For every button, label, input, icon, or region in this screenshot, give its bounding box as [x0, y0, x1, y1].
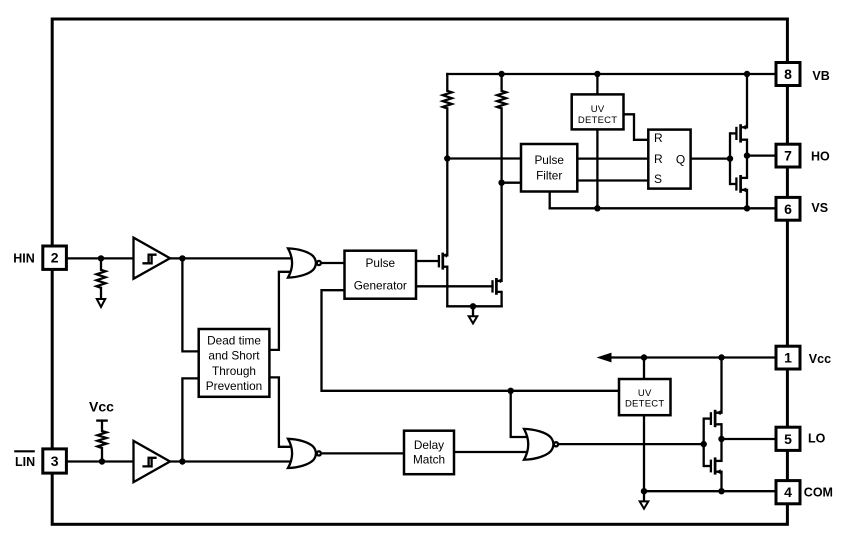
svg-text:Dead time: Dead time	[207, 334, 261, 348]
junction HO drain node	[744, 152, 750, 158]
wire LO driver drain bus mid	[720, 424, 722, 461]
svg-text:UV: UV	[591, 104, 605, 115]
resistor R2 level shift	[497, 91, 506, 109]
junction buffer B output node	[179, 458, 185, 464]
svg-text:DETECT: DETECT	[625, 399, 665, 410]
wire pulse generator to M1 gate	[416, 260, 439, 262]
svg-text:Vcc: Vcc	[809, 352, 831, 366]
svg-text:Q: Q	[676, 152, 685, 166]
svg-text:5: 5	[784, 431, 792, 447]
svg-text:Delay: Delay	[414, 438, 444, 452]
pin 5 LO	[776, 427, 800, 450]
transistor Q3 LO driver PMOS	[704, 410, 722, 427]
wire buffer A output down to dead time block	[182, 258, 198, 351]
wire M2 source to ground rail	[500, 292, 502, 306]
wire upper NOR output to pulse generator	[321, 262, 345, 264]
junction LO drain node	[718, 436, 724, 442]
wire pulse filter to latch R	[577, 157, 648, 159]
svg-text:and Short: and Short	[208, 349, 260, 363]
wire HO driver drain bus upper	[746, 74, 748, 127]
wire LO driver drain bus lower	[720, 472, 722, 492]
block dead time and short through prevention	[199, 329, 270, 397]
junction level shifter ground node	[470, 303, 476, 309]
wire level shifter source rail	[447, 305, 501, 307]
svg-text:HO: HO	[811, 149, 830, 163]
wire latch Q output to HO driver gates	[691, 157, 730, 159]
svg-text:R: R	[654, 131, 663, 145]
junction UV detect on VS rail	[594, 205, 600, 211]
wire output NOR to LO driver gates	[558, 443, 703, 445]
wire R1 node to pulse filter input 1	[447, 157, 521, 159]
svg-text:VS: VS	[811, 201, 828, 215]
wire LO driver output to LO pin	[722, 438, 777, 440]
arrow Vcc internal supply	[597, 353, 612, 363]
wire HIN pull-down resistor lead	[100, 258, 102, 269]
wire delay match to output NOR	[454, 451, 528, 453]
block pulse generator	[345, 251, 417, 299]
svg-text:LO: LO	[808, 431, 826, 445]
svg-text:1: 1	[784, 350, 792, 366]
pin 2 HIN	[43, 246, 67, 269]
block delay match	[404, 431, 454, 475]
wire upper UV detect output to latch R input	[624, 114, 649, 140]
junction NOR output on LO gate bus	[701, 441, 707, 447]
wire HO driver gate bus	[729, 133, 731, 184]
svg-text:HIN: HIN	[13, 252, 35, 266]
svg-text:Pulse: Pulse	[534, 153, 564, 167]
pin 7 HO	[776, 144, 800, 167]
svg-text:7: 7	[784, 148, 792, 164]
wire R1 to M1 drain	[446, 108, 448, 255]
wire VB rail	[447, 73, 776, 75]
wire HO driver drain bus lower	[746, 190, 748, 208]
block upper UV detect	[572, 94, 624, 129]
wire LIN resistor to input wire	[101, 448, 103, 462]
ground symbol below level shifters	[469, 316, 478, 323]
svg-text:Generator: Generator	[354, 278, 407, 292]
pin 6 VS	[776, 197, 800, 220]
svg-text:Prevention: Prevention	[206, 379, 262, 393]
junction feedback branch node	[508, 388, 514, 394]
schmitt buffer A (HIN)	[134, 238, 171, 279]
svg-text:S: S	[654, 172, 662, 186]
svg-text:Pulse: Pulse	[366, 256, 396, 270]
NOR gate U1 (high side)	[288, 248, 316, 277]
wire R2 node to pulse filter input 2	[502, 182, 521, 184]
wire below HIN resistor	[100, 288, 102, 299]
ground symbol on COM rail	[640, 501, 649, 508]
wire upper UV detect down to VS rail	[596, 129, 598, 208]
resistor R-HIN pull-down	[97, 270, 106, 288]
Vcc supply bar above LIN pull-up resistor	[96, 419, 108, 421]
transistor M2 level shift	[493, 278, 502, 295]
wire VB rail to resistor R2	[500, 74, 502, 91]
wire lower NOR output to delay match	[321, 452, 404, 454]
transistor Q1 HO driver PMOS	[730, 124, 747, 142]
wire pulse generator feedback to lower UV detect	[322, 290, 620, 391]
wire VB rail to upper UV detect	[596, 74, 598, 94]
wire R2 to M2 drain	[500, 108, 502, 281]
svg-text:DETECT: DETECT	[578, 115, 618, 126]
pin 1 Vcc	[776, 346, 800, 369]
junction LO driver on Vcc rail	[718, 354, 724, 360]
svg-text:4: 4	[784, 484, 792, 500]
pin 8 VB	[776, 63, 800, 86]
transistor Q2 HO driver NMOS	[730, 175, 747, 193]
wire HO driver drain bus mid	[746, 140, 748, 178]
ground arrow below HIN resistor	[97, 299, 105, 307]
wire HO driver output to HO pin	[747, 154, 776, 156]
pin 3 LIN	[43, 449, 67, 473]
svg-text:VB: VB	[812, 69, 829, 83]
wire LIN pin to input buffer	[66, 460, 133, 462]
block lower UV detect	[619, 379, 671, 415]
wire LO driver gate bus	[703, 419, 705, 466]
svg-text:Through: Through	[212, 364, 256, 378]
junction lower UV detect on COM rail	[641, 488, 647, 494]
junction buffer A output node	[179, 255, 185, 261]
junction LIN resistor node	[99, 458, 105, 464]
wire feedback branch down to output NOR	[511, 391, 528, 437]
NOR gate U2 (low side)	[288, 439, 316, 468]
svg-text:6: 6	[784, 201, 792, 217]
RS latch U4	[648, 130, 690, 189]
wire buffer B output up to dead time block	[182, 378, 198, 461]
IC package border	[52, 19, 787, 524]
wire VB rail to resistor R1	[446, 74, 448, 91]
svg-text:UV: UV	[638, 388, 652, 399]
svg-text:8: 8	[784, 66, 792, 82]
wire Vcc bar to LIN pull-up resistor	[101, 421, 103, 431]
wire LO driver drain bus upper	[720, 358, 722, 413]
wire lower UV detect down to COM rail	[643, 415, 645, 491]
wire buffer B output to lower NOR input	[170, 460, 294, 462]
junction R1 pulse filter tap	[444, 155, 450, 161]
wire VS rail	[550, 207, 776, 209]
transistor M1 level shift	[439, 253, 447, 270]
transistor Q4 LO driver NMOS	[704, 457, 722, 474]
junction lower UV detect on Vcc rail	[641, 354, 647, 360]
junction HO driver on VB rail	[744, 71, 750, 77]
resistor R-LIN pull-up	[98, 431, 107, 448]
wire COM ground stub	[643, 491, 645, 501]
block pulse filter	[521, 144, 577, 192]
junction R2 pulse filter tap	[498, 180, 504, 186]
svg-text:R: R	[654, 152, 663, 166]
svg-text:3: 3	[51, 453, 59, 469]
wire M1 source to ground rail	[446, 267, 448, 307]
pin 4 COM	[776, 481, 800, 504]
wire buffer A output to upper NOR input	[170, 257, 294, 259]
wire dead time block to upper NOR lower input	[269, 272, 294, 350]
svg-text:2: 2	[51, 250, 59, 266]
wire pulse generator to M2 gate	[416, 285, 493, 287]
junction HIN resistor node	[98, 255, 104, 261]
wire pulse filter to latch S	[577, 179, 648, 181]
junction HO driver on VS rail	[744, 205, 750, 211]
junction LO driver on COM rail	[718, 488, 724, 494]
junction R2 on VB rail	[498, 71, 504, 77]
svg-text:Vcc: Vcc	[89, 399, 114, 415]
wire COM rail	[644, 490, 776, 492]
wire HIN pin to input buffer	[66, 257, 133, 259]
svg-text:Filter: Filter	[536, 169, 562, 183]
wire dead time block to lower NOR upper input	[269, 377, 294, 446]
wire source rail ground stub	[472, 306, 474, 316]
wire Vcc rail to lower UV detect	[643, 358, 645, 380]
svg-text:COM: COM	[804, 486, 833, 500]
wire Vcc rail	[608, 356, 776, 358]
junction UV detect on VB rail	[594, 71, 600, 77]
wire pulse filter bottom to VS rail	[549, 191, 551, 208]
svg-text:Match: Match	[413, 452, 445, 466]
junction Q output on HO gate bus	[727, 155, 733, 161]
NOR gate U3 (LO output)	[524, 429, 553, 460]
schmitt buffer B (LIN)	[134, 441, 171, 482]
svg-text:LIN: LIN	[15, 455, 35, 469]
resistor R1 level shift	[443, 91, 452, 109]
